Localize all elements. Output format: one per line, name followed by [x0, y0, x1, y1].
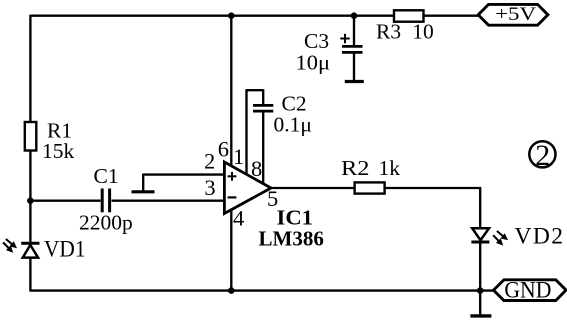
svg-text:2: 2: [535, 139, 550, 172]
wire pin8 upper segment: [262, 89, 264, 104]
svg-text:15k: 15k: [42, 139, 75, 163]
LED VD2: [471, 228, 489, 242]
capacitor C3 plates (electrolytic): [342, 46, 363, 52]
svg-text:+5V: +5V: [495, 5, 537, 25]
svg-text:2200p: 2200p: [79, 210, 133, 234]
wire bottom rail: [29, 289, 493, 291]
+5V power flag: [478, 4, 548, 25]
wire C3 branch bottom: [353, 54, 355, 81]
C3 plus sign: [340, 34, 349, 43]
node junction bottom VD2/GND: [477, 287, 484, 294]
node junction left rail / C1: [27, 197, 34, 204]
op-amp minus input mark: [228, 196, 237, 198]
C3 ground bar: [345, 80, 364, 83]
op-amp IC1 triangle: [224, 162, 271, 214]
wire pin4 vertical: [230, 210, 232, 291]
svg-text:10: 10: [412, 20, 434, 44]
svg-text:1: 1: [233, 144, 244, 169]
svg-text:1k: 1k: [379, 156, 401, 180]
node junction top pin6: [228, 12, 235, 19]
svg-text:LM386: LM386: [259, 227, 324, 251]
photodiode VD1: [21, 243, 39, 257]
wire pin2 ground drop: [142, 174, 144, 191]
node junction bottom pin4: [228, 287, 235, 294]
svg-text:10μ: 10μ: [296, 51, 331, 75]
svg-text:0.1μ: 0.1μ: [274, 113, 312, 137]
wire pin6 vertical: [230, 16, 232, 167]
wire output pin5: [271, 187, 480, 189]
wire left rail upper: [29, 15, 31, 242]
wire VD2 branch upper: [479, 187, 481, 228]
circled figure number 2: [529, 141, 555, 167]
wire ground stub below bottom rail: [479, 291, 481, 316]
wire C3 branch top: [353, 16, 355, 46]
svg-text:C1: C1: [94, 164, 119, 188]
svg-text:4: 4: [233, 205, 244, 230]
svg-text:R3: R3: [376, 19, 401, 43]
capacitor C2 plates: [253, 105, 273, 111]
capacitor C1 plates: [102, 189, 109, 213]
wire top rail: [30, 15, 478, 17]
pin2 ground bar: [132, 190, 155, 193]
svg-text:8: 8: [251, 156, 262, 181]
VD1 light arrows: [1, 236, 20, 255]
svg-text:3: 3: [204, 175, 215, 200]
GND flag: [494, 280, 567, 301]
resistor R1: [25, 122, 37, 151]
node junction top C3: [351, 12, 358, 19]
svg-text:R2: R2: [341, 156, 370, 180]
svg-text:5: 5: [267, 186, 278, 211]
wire pin8 lower segment: [262, 112, 264, 183]
wire pin2 horizontal: [143, 173, 224, 175]
wire pin3 input right: [112, 200, 225, 202]
op-amp plus input mark: [228, 172, 237, 181]
wire pin1-pin8 bridge top: [246, 89, 264, 91]
svg-text:2: 2: [204, 149, 215, 174]
resistor R2: [355, 182, 385, 193]
ground bar below bottom rail: [470, 314, 491, 317]
svg-text:6: 6: [218, 136, 229, 161]
svg-text:VD2: VD2: [515, 224, 564, 250]
svg-text:VD1: VD1: [44, 237, 86, 263]
svg-text:C3: C3: [304, 29, 329, 53]
wire VD2 branch lower: [479, 243, 481, 291]
wire pin3 input left: [30, 200, 100, 202]
resistor R3: [394, 10, 424, 21]
wire pin1 up: [245, 90, 247, 174]
wire left rail lower: [29, 258, 31, 290]
VD2 light arrows: [491, 228, 511, 248]
svg-text:GND: GND: [504, 278, 551, 303]
